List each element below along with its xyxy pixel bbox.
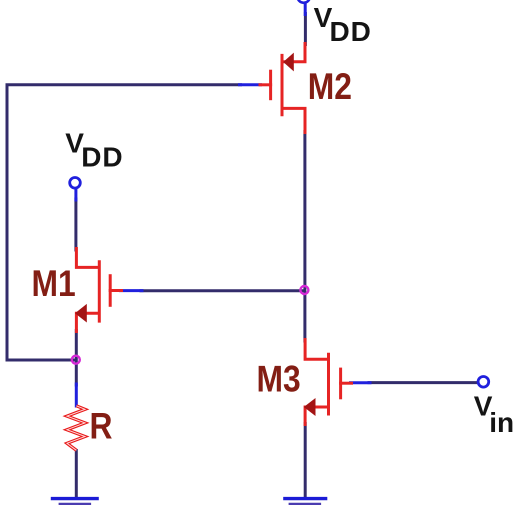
svg-text:M3: M3 xyxy=(257,359,301,400)
svg-text:DD: DD xyxy=(330,16,372,47)
svg-text:in: in xyxy=(489,407,514,438)
svg-text:M2: M2 xyxy=(308,67,352,108)
svg-text:M1: M1 xyxy=(32,264,76,305)
svg-text:R: R xyxy=(90,406,113,447)
svg-text:DD: DD xyxy=(81,141,123,172)
